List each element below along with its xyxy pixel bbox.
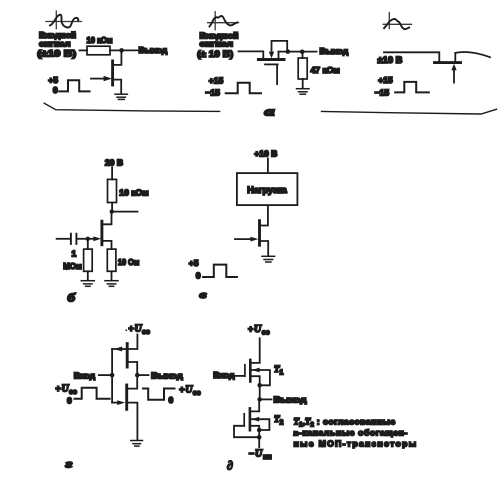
svg-text:Выход: Выход: [274, 395, 308, 405]
waveform squiggle a3: [384, 19, 409, 29]
transistor Q5 gate lead: [235, 238, 251, 240]
pulse label +Ucc right (г): [179, 385, 200, 398]
svg-text:+15: +15: [209, 75, 224, 85]
input waveform icon a3: [383, 13, 411, 29]
wire: input to Q3 (a3): [384, 52, 439, 61]
svg-text:сс: сс: [262, 330, 270, 337]
svg-text:10 кОм: 10 кОм: [87, 35, 113, 45]
label +Ucc top (г): [125, 324, 149, 337]
svg-text:+5: +5: [189, 258, 199, 268]
svg-text:Вход: Вход: [74, 370, 96, 380]
svg-text:U: U: [255, 449, 263, 460]
label -Uии: [249, 449, 272, 462]
label T1: [274, 364, 284, 377]
transistor Q4 channel bar: [100, 221, 103, 245]
resistor R1: [87, 46, 110, 55]
svg-text:(±10 В): (±10 В): [37, 48, 76, 59]
transistor T2 body arrowhead: [252, 417, 260, 422]
node: body tie a2: [286, 49, 291, 54]
wire: between nodes and to -Uии: [258, 430, 260, 447]
wire: node to R2: [302, 53, 304, 58]
svg-text:+10 В: +10 В: [254, 149, 277, 159]
pulse label +Ucc left (г): [56, 383, 77, 396]
transistor Q2 gate electrode: [265, 63, 278, 65]
transistor Q4 source lead: [103, 241, 111, 249]
svg-text:+: +: [56, 383, 61, 393]
transistor T1 gate electrode: [244, 365, 246, 377]
wire: R4 to ground: [87, 271, 89, 280]
svg-text:n-канальные обогащен-: n-канальные обогащен-: [294, 428, 408, 438]
svg-text:0: 0: [169, 395, 174, 405]
wire: R1 to output node: [110, 49, 138, 51]
svg-text:Выход: Выход: [320, 46, 349, 56]
svg-text:1: 1: [72, 248, 77, 258]
svg-text:(± 10 В): (± 10 В): [197, 48, 233, 59]
ground б (left): [81, 281, 94, 287]
svg-text:0: 0: [196, 271, 201, 281]
transistor Q3 gate arrowhead: [451, 64, 456, 70]
transistor Q2 gate lead down: [276, 64, 278, 84]
transistor Q7 gate lead: [112, 402, 118, 404]
resistor R3: [108, 179, 117, 202]
wire: output curve a3: [455, 52, 490, 57]
wire: 20В to R3: [111, 168, 113, 180]
transistor Q6 source lead to output: [129, 362, 138, 375]
wire: input lead г: [99, 374, 110, 376]
transistor Q6 gate lead: [112, 348, 126, 350]
transistor T1 source lead: [252, 376, 260, 384]
ground в: [262, 256, 275, 262]
transistor Q3 channel bar (horizontal): [435, 61, 461, 64]
transistor Q7 channel bar (n-ch): [125, 385, 128, 409]
svg-text:Выход: Выход: [139, 45, 168, 55]
svg-text:сс: сс: [193, 390, 201, 397]
svg-text:±10 В: ±10 В: [378, 54, 403, 65]
note text: T1,T2 matched n-channel enhancement MOS transistors: [294, 417, 418, 449]
wire: output lead б: [112, 211, 138, 213]
resistor R4: [84, 249, 93, 271]
node: output a2: [300, 50, 305, 55]
svg-text:в: в: [200, 289, 207, 301]
transistor Q5 channel bar: [258, 221, 261, 246]
node: input г: [110, 373, 115, 378]
ground a1: [115, 94, 127, 99]
pulse waveform left (г): [75, 388, 110, 399]
node: output (д): [257, 397, 262, 402]
transistor Q6 gate arrow (points left): [114, 347, 122, 352]
transistor T2 channel bar: [249, 408, 252, 430]
transistor T1 body arrowhead: [252, 368, 260, 373]
transistor T1 body lead and loop: [252, 370, 270, 385]
input waveform icon a1: [46, 11, 82, 29]
svg-text:ные МОП-транзисторы: ные МОП-транзисторы: [294, 438, 418, 448]
wire: input to Q2 source: [239, 51, 264, 58]
wire: R2 to ground: [302, 79, 304, 88]
svg-text:20 В: 20 В: [105, 157, 123, 167]
pulse waveform right (г, inverted): [143, 389, 175, 400]
svg-text:Вход: Вход: [213, 370, 235, 380]
svg-text:+: +: [248, 324, 253, 334]
waveform squiggle a1: [50, 15, 78, 28]
svg-text:−15: −15: [375, 88, 390, 98]
pulse waveform a1: [59, 80, 89, 91]
svg-text:+: +: [129, 324, 134, 334]
svg-text:+: +: [179, 385, 184, 395]
ground a2: [297, 89, 310, 95]
transistor Q2 body arrow shaft and loop to output: [272, 41, 288, 51]
transistor Q6 channel bar (p-ch): [126, 344, 129, 367]
svg-text:сс: сс: [142, 329, 150, 336]
pulse waveform в: [203, 265, 237, 277]
wire: gate node to R4: [87, 240, 89, 249]
transistor Q4 gate arrow: [93, 236, 101, 241]
svg-text:−15: −15: [205, 87, 220, 97]
node: T1 source (д): [257, 383, 262, 388]
wire: output lead г: [139, 374, 149, 376]
svg-text:−: −: [249, 449, 254, 459]
wire: T1 source to output node: [259, 385, 261, 399]
waveform squiggle a2: [210, 16, 238, 27]
brace under row a (right part): [322, 109, 497, 114]
wire: input to C1: [57, 238, 70, 240]
svg-text:ии: ии: [263, 454, 272, 461]
node: drain б: [110, 209, 114, 213]
input waveform icon a2: [208, 12, 239, 30]
node: output г: [135, 373, 140, 378]
svg-text:0: 0: [53, 85, 58, 95]
label T2: [274, 414, 284, 427]
svg-text:Нагрузка: Нагрузка: [247, 185, 287, 195]
label +Ucc (д): [248, 324, 270, 337]
pulse waveform a3: [395, 82, 429, 93]
transistor Q5 gate arrow: [250, 237, 258, 242]
transistor Q2 channel bar (horizontal): [258, 58, 284, 61]
svg-text:10 кОм: 10 кОм: [119, 188, 148, 198]
svg-text:а: а: [265, 105, 275, 119]
wire: gate bus г: [111, 349, 113, 403]
transistor Q1 source lead: [114, 80, 121, 94]
transistor Q7 gate arrow (points right): [117, 400, 125, 405]
wire: R5 to ground: [111, 271, 113, 280]
svg-text:г: г: [66, 457, 74, 471]
node: gate б: [86, 237, 90, 241]
transistor Q3 gate lead: [453, 70, 455, 83]
svg-text:2: 2: [280, 419, 284, 426]
node: T2 source (д): [257, 428, 262, 433]
wire: +Ucc to Q6: [129, 335, 138, 350]
transistor Q7 drain lead: [128, 375, 137, 389]
svg-text:10 Ом: 10 Ом: [118, 257, 139, 267]
capacitor C1: [71, 234, 77, 244]
pulse waveform a2: [226, 83, 261, 94]
node: T2 gate tie (д): [257, 435, 262, 440]
transistor Q1 gate arrow: [104, 76, 112, 81]
transistor Q2 drain lead: [278, 52, 280, 58]
brace under row a (left part): [44, 103, 219, 111]
svg-text:+15: +15: [378, 75, 393, 85]
svg-text:47 кОм: 47 кОм: [311, 65, 340, 75]
wire: C1 to gate node: [78, 238, 88, 240]
transistor Q1 channel bar: [111, 61, 114, 85]
transistor Q5 source lead: [261, 241, 268, 256]
wire: input to R1: [80, 49, 88, 51]
transistor Q4 gate lead: [90, 238, 94, 240]
wire: +10В to load box: [267, 159, 269, 174]
wire: output lead (д): [262, 398, 272, 400]
transistor Q1 gate lead: [91, 78, 104, 80]
transistor Q2 body arrowhead: [269, 52, 274, 59]
wire: output line a2: [279, 51, 317, 53]
transistor T2 drain lead: [251, 401, 259, 411]
transistor T1 channel bar: [249, 360, 252, 382]
node: output a1: [119, 48, 124, 53]
svg-text:∂: ∂: [227, 459, 233, 473]
wire: T2 gate loop to lower node: [234, 426, 258, 437]
svg-text:1: 1: [280, 369, 284, 376]
ground б (right): [105, 281, 118, 287]
svg-text:Выход: Выход: [151, 370, 183, 380]
transistor T2 source lead: [251, 426, 259, 429]
resistor R5: [107, 249, 116, 271]
wire: +Ucc to T1 drain: [252, 338, 260, 363]
load box (Нагрузка): [237, 173, 298, 205]
transistor T2 gate electrode: [243, 414, 245, 426]
svg-text:0: 0: [67, 395, 72, 405]
transistor Q7 source lead: [128, 403, 137, 440]
transistor Q3 drain lead: [454, 53, 456, 61]
svg-text:+5: +5: [48, 75, 58, 85]
resistor R2: [298, 58, 307, 79]
svg-text:МОм: МОм: [63, 261, 82, 271]
wire: R3 to drain node: [111, 203, 113, 212]
transistor T2 body lead and loop: [251, 419, 269, 430]
ground г: [131, 441, 143, 447]
transistor Q1 drain lead: [114, 53, 121, 65]
wire: input lead to T1 gate: [235, 375, 244, 377]
svg-text:б: б: [68, 291, 77, 305]
transistor Q4 drain lead: [103, 213, 111, 224]
wire: load box to Q5 drain: [261, 206, 268, 226]
